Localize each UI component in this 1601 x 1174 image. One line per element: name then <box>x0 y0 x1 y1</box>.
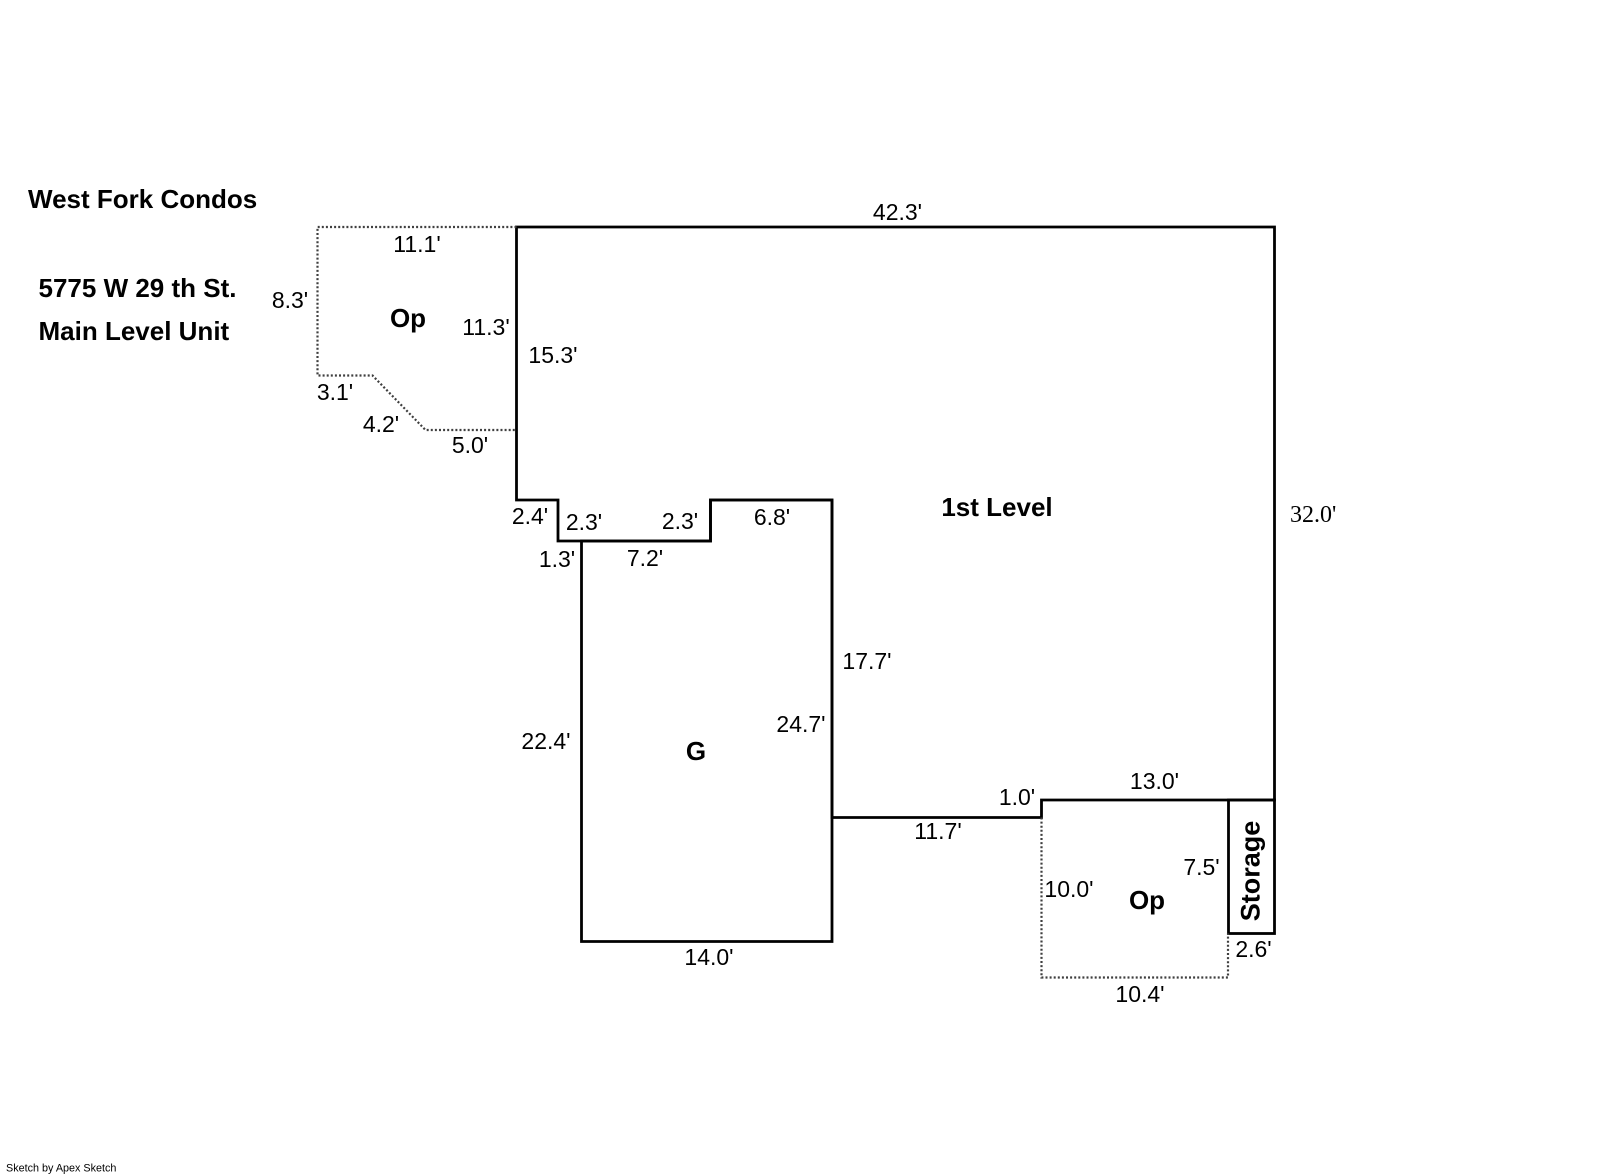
svg-text:2.3': 2.3' <box>566 509 602 535</box>
svg-text:Op: Op <box>1129 885 1165 915</box>
svg-text:24.7': 24.7' <box>776 711 825 737</box>
storage box <box>1229 800 1275 934</box>
svg-text:11.1': 11.1' <box>393 231 440 257</box>
svg-text:10.0': 10.0' <box>1044 876 1093 902</box>
svg-text:7.5': 7.5' <box>1183 854 1219 880</box>
svg-text:1st Level: 1st Level <box>941 492 1052 522</box>
dotted open porch top-left <box>318 227 517 430</box>
dotted open porch bottom-right <box>1042 818 1229 978</box>
svg-text:2.4': 2.4' <box>512 503 548 529</box>
svg-text:8.3': 8.3' <box>272 287 308 313</box>
svg-text:Sketch by Apex Sketch: Sketch by Apex Sketch <box>6 1163 116 1174</box>
svg-text:West Fork Condos: West Fork Condos <box>28 184 257 214</box>
svg-text:32.0': 32.0' <box>1290 502 1336 528</box>
garage G outline <box>582 500 833 942</box>
svg-text:5.0': 5.0' <box>452 432 488 458</box>
svg-text:4.2': 4.2' <box>363 411 399 437</box>
svg-text:1.0': 1.0' <box>999 784 1035 810</box>
svg-text:42.3': 42.3' <box>873 199 922 225</box>
svg-text:6.8': 6.8' <box>754 504 790 530</box>
svg-text:11.3': 11.3' <box>462 314 509 340</box>
1st Level outline <box>517 227 1275 818</box>
svg-text:22.4': 22.4' <box>521 728 570 754</box>
svg-text:13.0': 13.0' <box>1130 768 1179 794</box>
svg-text:14.0': 14.0' <box>684 944 733 970</box>
svg-text:15.3': 15.3' <box>528 342 577 368</box>
svg-text:Op: Op <box>390 303 426 333</box>
svg-text:7.2': 7.2' <box>627 545 663 571</box>
svg-text:5775 W 29 th St.: 5775 W 29 th St. <box>39 273 237 303</box>
svg-text:3.1': 3.1' <box>317 379 353 405</box>
svg-text:Main Level Unit: Main Level Unit <box>39 316 230 346</box>
svg-text:10.4': 10.4' <box>1115 981 1164 1007</box>
svg-text:2.6': 2.6' <box>1235 936 1271 962</box>
svg-text:Storage: Storage <box>1236 821 1266 922</box>
svg-text:17.7': 17.7' <box>842 648 891 674</box>
svg-text:1.3': 1.3' <box>539 546 575 572</box>
svg-text:11.7': 11.7' <box>914 818 961 844</box>
svg-text:2.3': 2.3' <box>662 508 698 534</box>
svg-text:G: G <box>686 736 706 766</box>
